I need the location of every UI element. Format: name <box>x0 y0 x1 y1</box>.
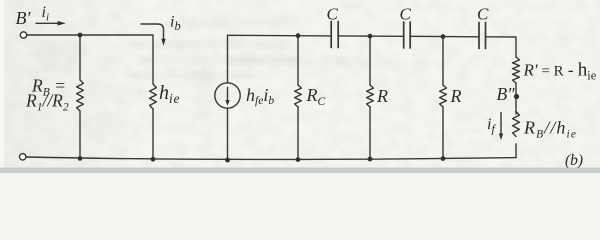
svg-text:C: C <box>477 5 489 24</box>
svg-text:B′: B′ <box>16 8 32 28</box>
svg-text:R: R <box>376 86 388 106</box>
svg-text:R: R <box>450 86 462 106</box>
svg-text:(b): (b) <box>565 152 583 169</box>
svg-text:R′ = R - hie: R′ = R - hie <box>523 60 597 83</box>
svg-text:R1//R2: R1//R2 <box>25 91 69 114</box>
svg-text:C: C <box>327 5 339 24</box>
svg-text:B″: B″ <box>497 84 516 104</box>
svg-text:C: C <box>400 5 412 24</box>
